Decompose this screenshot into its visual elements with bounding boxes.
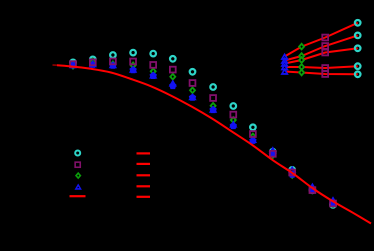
inset line 2: [285, 35, 358, 60]
inset line 1: [285, 23, 358, 57]
cluster 4: [129, 50, 137, 73]
cluster 2: [89, 57, 97, 68]
inset markers: [280, 20, 360, 77]
cluster 14: [329, 196, 337, 208]
inset line 5: [285, 72, 358, 75]
inset line 3: [285, 48, 358, 63]
red fit curve: [57, 65, 371, 223]
cluster 12: [288, 166, 296, 180]
cluster 1: [69, 60, 77, 70]
cluster 10: [249, 125, 257, 144]
cluster 5: [149, 51, 157, 79]
cluster 8: [209, 84, 217, 113]
cluster 13: [308, 183, 316, 194]
legend column 1: [70, 150, 86, 196]
cluster 6: [169, 56, 177, 89]
cluster 9: [229, 103, 237, 129]
cluster 11: [269, 146, 277, 159]
legend column 2 red lines: [137, 153, 151, 196]
inset line 4: [285, 66, 358, 68]
cluster 7: [188, 69, 196, 101]
cluster 3: [109, 52, 117, 68]
red fit curve faded start: [53, 64, 59, 66]
